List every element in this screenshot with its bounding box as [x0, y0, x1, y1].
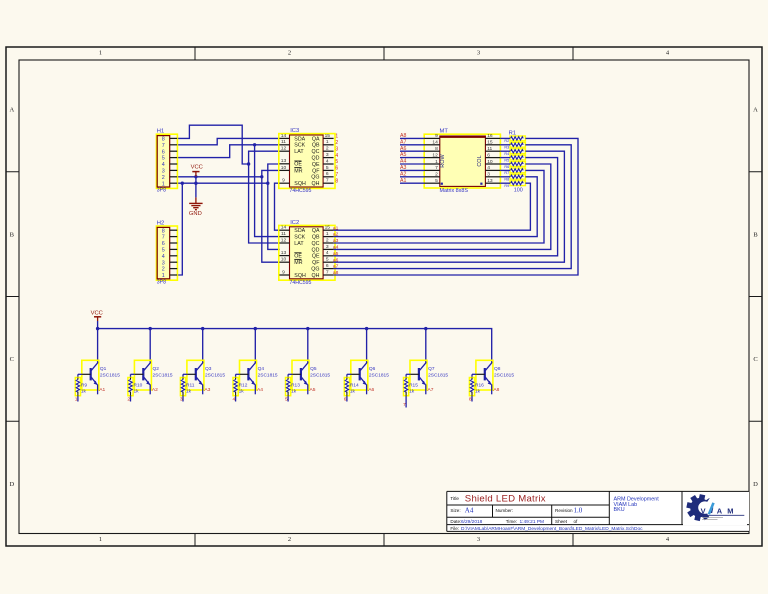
svg-text:3: 3	[487, 172, 490, 178]
svg-text:Q8: Q8	[494, 366, 501, 372]
svg-text:QD: QD	[312, 247, 320, 253]
wire H1 pin7 to IC3 SDA	[177, 138, 279, 144]
svg-text:QA: QA	[312, 136, 320, 142]
svg-text:2: 2	[162, 175, 165, 181]
svg-text:R6: R6	[504, 165, 509, 169]
svg-text:1k: 1k	[475, 389, 481, 395]
svg-text:3: 3	[162, 169, 165, 175]
svg-text:3: 3	[326, 152, 329, 158]
svg-text:VCC: VCC	[191, 165, 203, 171]
resistor R12 1k	[233, 378, 248, 396]
svg-text:A6: A6	[400, 146, 406, 152]
svg-text:3: 3	[180, 396, 183, 402]
svg-text:1: 1	[99, 536, 102, 543]
svg-text:6: 6	[487, 152, 490, 158]
svg-text:LAT: LAT	[294, 241, 304, 247]
svg-text:13: 13	[487, 178, 493, 184]
wire VCC stem to rows	[195, 177, 197, 183]
wire IC2 QC to resistor R7	[334, 170, 544, 243]
svg-text:IC2: IC2	[290, 220, 299, 226]
wire IC2 QB to resistor R8	[334, 177, 538, 237]
svg-text:QD: QD	[312, 156, 320, 162]
svg-text:2SC1815: 2SC1815	[310, 372, 330, 378]
wire H1 pin5 to IC3 SCK	[177, 145, 279, 158]
svg-text:QB: QB	[312, 235, 320, 241]
wire IC2 QG to resistor R3	[334, 145, 572, 269]
svg-text:1: 1	[99, 50, 102, 57]
svg-text:Q3: Q3	[205, 366, 212, 372]
wire net 4 stub below R12	[235, 396, 237, 402]
wire collector drop Q2	[149, 329, 151, 362]
svg-text:Time:: Time:	[506, 519, 517, 524]
svg-text:QC: QC	[312, 241, 320, 247]
ground GND	[189, 197, 203, 217]
svg-text:D:\VIAMLab\ARMHoanF\ARM_Develo: D:\VIAMLab\ARMHoanF\ARM_Development_Boar…	[461, 526, 643, 532]
wire IC2 QF to resistor R4	[334, 151, 565, 262]
shift register IC3 74HC595	[279, 128, 335, 194]
svg-text:1k: 1k	[186, 389, 192, 395]
svg-text:9: 9	[435, 133, 438, 139]
svg-text:Title: Title	[450, 496, 459, 501]
svg-text:A4: A4	[465, 506, 474, 514]
svg-text:5: 5	[162, 156, 165, 162]
svg-text:2: 2	[435, 172, 438, 178]
wire net 7 stub below R15	[405, 396, 407, 408]
transistor Q7 2SC1815	[410, 360, 448, 394]
svg-text:15: 15	[325, 133, 331, 139]
transistor Q8 2SC1815	[476, 360, 514, 394]
svg-text:2SC1815: 2SC1815	[428, 372, 448, 378]
svg-text:3P8: 3P8	[157, 188, 166, 194]
wire IC2 QD to resistor R6	[334, 164, 551, 249]
wire collector drop Q1	[97, 329, 99, 362]
wire H1 pin8 to LAT net	[177, 125, 249, 164]
svg-text:A1: A1	[400, 178, 406, 184]
wire collector drop Q4	[254, 329, 256, 362]
resistor R5	[504, 155, 525, 162]
transistor Q5 2SC1815	[292, 360, 330, 394]
svg-text:R15: R15	[409, 382, 418, 388]
wire IC2 QE to resistor R5	[334, 158, 558, 256]
svg-text:OE: OE	[294, 162, 302, 168]
svg-text:A8: A8	[493, 387, 499, 393]
wire base of Q1 to resistor R9	[78, 374, 91, 377]
svg-text:QA: QA	[312, 228, 320, 234]
resistor R8	[504, 174, 525, 181]
svg-text:QF: QF	[312, 260, 320, 266]
wire GND net H1 pin1 row	[177, 182, 268, 184]
svg-text:A4: A4	[257, 387, 263, 393]
svg-text:16: 16	[487, 133, 493, 139]
junction rail Q6	[365, 327, 368, 330]
svg-text:6: 6	[326, 263, 329, 269]
power VCC (transistor rail)	[91, 311, 103, 321]
wire collector drop Q3	[202, 329, 204, 362]
connector H1	[156, 129, 177, 194]
resistor R13 1k	[286, 378, 301, 396]
svg-text:Q6: Q6	[369, 366, 376, 372]
svg-text:3P8: 3P8	[157, 279, 166, 285]
svg-text:Number:: Number:	[496, 508, 514, 513]
svg-text:1k: 1k	[239, 389, 245, 395]
svg-text:7: 7	[162, 143, 165, 149]
svg-text:15: 15	[487, 140, 493, 146]
svg-text:2: 2	[288, 536, 291, 543]
wire base of Q2 to resistor R10	[131, 374, 144, 377]
svg-text:6: 6	[162, 149, 165, 155]
svg-text:15: 15	[325, 225, 331, 231]
wire base of Q7 to resistor R15	[406, 374, 419, 377]
wire GND net to OE pins	[268, 164, 280, 249]
svg-text:14: 14	[281, 225, 287, 231]
svg-text:A5: A5	[400, 152, 406, 158]
resistor R9 1k	[75, 378, 87, 396]
junction VCC stem on pin2 row	[194, 175, 197, 178]
svg-text:8: 8	[469, 396, 472, 402]
transistor Q2 2SC1815	[134, 360, 172, 394]
svg-text:2: 2	[288, 50, 291, 57]
svg-text:3: 3	[477, 50, 480, 57]
wire H2 pin1 to GND row	[177, 183, 182, 275]
resistor R4	[504, 149, 525, 156]
svg-text:11: 11	[281, 139, 286, 145]
svg-text:Matrix 8x8S: Matrix 8x8S	[440, 188, 469, 194]
junction GND row at OE vertical	[266, 182, 269, 185]
logo VIAM	[683, 492, 747, 525]
svg-text:R9: R9	[81, 382, 87, 388]
wire collector drop Q6	[366, 329, 368, 362]
wire matrix column pin to resistor R6	[500, 163, 510, 165]
connector H2	[156, 220, 177, 285]
svg-text:1: 1	[435, 159, 438, 165]
svg-text:1.0: 1.0	[574, 506, 583, 514]
svg-text:4: 4	[162, 254, 165, 260]
wire net A3 to matrix row pin	[400, 169, 425, 171]
junction SCK branch	[253, 143, 256, 146]
svg-text:8: 8	[335, 178, 338, 184]
svg-text:4: 4	[335, 153, 338, 159]
svg-text:IC3: IC3	[290, 128, 299, 134]
svg-text:R7: R7	[504, 171, 509, 175]
svg-text:1: 1	[162, 181, 165, 187]
svg-text:4: 4	[233, 396, 236, 402]
svg-text:2SC1815: 2SC1815	[258, 372, 278, 378]
svg-text:A7: A7	[428, 387, 434, 393]
wire net A6 to matrix row pin	[400, 150, 425, 152]
svg-text:MR: MR	[294, 260, 302, 266]
svg-text:7: 7	[162, 235, 165, 241]
transistor Q4 2SC1815	[240, 360, 278, 394]
svg-text:D: D	[9, 481, 14, 488]
svg-text:74HC595: 74HC595	[290, 280, 312, 286]
svg-text:SQH: SQH	[294, 273, 306, 279]
svg-text:A5: A5	[310, 387, 316, 393]
svg-text:5: 5	[335, 159, 338, 165]
junction rail Q2	[149, 327, 152, 330]
wire net 6 stub below R14	[346, 396, 348, 402]
wire matrix column pin to resistor R4	[500, 150, 510, 152]
svg-text:2SC1815: 2SC1815	[369, 372, 389, 378]
svg-text:A3: A3	[400, 165, 406, 171]
svg-text:3: 3	[162, 260, 165, 266]
svg-text:H2: H2	[157, 220, 164, 226]
resistor R11 1k	[180, 378, 194, 396]
svg-text:5: 5	[435, 178, 438, 184]
svg-text:B: B	[753, 231, 758, 238]
svg-text:5: 5	[326, 257, 329, 263]
svg-text:A: A	[9, 107, 14, 114]
svg-text:1: 1	[162, 273, 165, 279]
svg-text:Revision: Revision	[555, 508, 573, 513]
wire net 8 stub below R16	[471, 396, 473, 402]
svg-text:R11: R11	[186, 382, 195, 388]
svg-text:5: 5	[162, 248, 165, 254]
wire VCC net to MR pins	[262, 170, 280, 262]
svg-text:1: 1	[75, 396, 78, 402]
junction on LAT net	[247, 162, 250, 165]
svg-text:ROW: ROW	[440, 153, 446, 167]
resistor R14 1k	[344, 378, 359, 396]
svg-text:SCK: SCK	[294, 143, 305, 149]
junction rail Q7	[424, 327, 427, 330]
wire base of Q4 to resistor R12	[236, 374, 249, 377]
svg-text:12: 12	[432, 152, 438, 158]
svg-text:2SC1815: 2SC1815	[205, 372, 225, 378]
svg-text:COL: COL	[477, 155, 483, 166]
wire base of Q8 to resistor R16	[472, 374, 485, 377]
shift register IC2 74HC595	[279, 220, 335, 286]
svg-text:14: 14	[432, 140, 438, 146]
svg-text:MT: MT	[440, 129, 449, 135]
svg-text:SCK: SCK	[294, 235, 305, 241]
resistor R15 1k	[404, 378, 419, 396]
svg-text:R10: R10	[134, 382, 143, 388]
svg-text:4: 4	[487, 165, 490, 171]
svg-text:3: 3	[335, 146, 338, 152]
svg-text:A8: A8	[400, 133, 406, 139]
svg-text:7: 7	[335, 172, 338, 178]
resistor R6	[504, 162, 525, 169]
svg-text:QH: QH	[312, 273, 320, 279]
svg-text:8: 8	[162, 228, 165, 234]
svg-text:1: 1	[335, 134, 338, 140]
wire base of Q5 to resistor R13	[288, 374, 301, 377]
wire matrix column pin to resistor R2	[500, 137, 510, 139]
svg-text:QE: QE	[312, 254, 320, 260]
wire net A2 to matrix row pin	[400, 176, 425, 178]
wire base of Q6 to resistor R14	[347, 374, 360, 377]
svg-text:C: C	[753, 356, 757, 363]
svg-text:SDA: SDA	[294, 136, 305, 142]
wire base of Q3 to resistor R11	[183, 374, 196, 377]
svg-text:V: V	[701, 507, 706, 516]
svg-text:Shield LED Matrix: Shield LED Matrix	[465, 494, 546, 505]
svg-text:R9: R9	[504, 184, 509, 188]
wire net 1 stub below R9	[77, 396, 79, 402]
svg-text:A6: A6	[368, 387, 374, 393]
svg-text:5: 5	[326, 165, 329, 171]
wire collector drop Q7	[425, 329, 427, 362]
svg-text:A2: A2	[152, 387, 158, 393]
svg-text:4: 4	[162, 162, 165, 168]
svg-text:1k: 1k	[81, 389, 87, 395]
svg-text:2SC1815: 2SC1815	[494, 372, 514, 378]
wire collector drop Q5	[307, 329, 309, 362]
junction GND drop on pin1 row	[194, 182, 197, 185]
wire VCC rail	[97, 321, 99, 329]
svg-text:1:49:21 PM: 1:49:21 PM	[520, 519, 545, 525]
svg-text:GND: GND	[189, 211, 202, 217]
svg-text:QE: QE	[312, 162, 320, 168]
wire matrix column pin to resistor R7	[500, 169, 510, 171]
power VCC (top)	[191, 165, 203, 177]
svg-text:7: 7	[326, 178, 329, 184]
junction rail Q1	[96, 327, 99, 330]
wire net A1 to matrix row pin	[400, 182, 425, 184]
svg-text:R3: R3	[504, 146, 509, 150]
svg-text:MR: MR	[294, 168, 302, 174]
svg-text:QG: QG	[311, 267, 319, 273]
wire matrix column pin to resistor R9	[500, 182, 510, 184]
svg-text:Size:: Size:	[450, 508, 460, 513]
wire matrix column pin to resistor R3	[500, 144, 510, 146]
svg-text:A: A	[717, 507, 723, 516]
svg-text:3: 3	[477, 536, 480, 543]
svg-text:10: 10	[487, 159, 493, 165]
wire SCK net to IC2	[255, 145, 280, 237]
svg-text:6/29/2018: 6/29/2018	[461, 519, 483, 525]
wire LAT net IC3 to IC2	[249, 151, 280, 243]
resistor R2	[504, 136, 525, 143]
svg-text:1: 1	[326, 231, 329, 237]
svg-text:C: C	[10, 356, 14, 363]
wire net 3 stub below R11	[182, 396, 184, 402]
svg-text:Q4: Q4	[258, 366, 265, 372]
svg-text:1k: 1k	[350, 389, 356, 395]
svg-text:2SC1815: 2SC1815	[153, 372, 173, 378]
svg-text:R5: R5	[504, 158, 509, 162]
svg-text:R13: R13	[291, 382, 300, 388]
svg-text:LAT: LAT	[294, 149, 304, 155]
svg-text:2SC1815: 2SC1815	[100, 372, 120, 378]
svg-text:9: 9	[282, 269, 285, 275]
svg-text:1k: 1k	[291, 389, 297, 395]
svg-text:Q2: Q2	[153, 366, 160, 372]
svg-text:R4: R4	[504, 152, 509, 156]
svg-text:3: 3	[326, 244, 329, 250]
svg-text:QH: QH	[312, 181, 320, 187]
wire net 5 stub below R13	[287, 396, 289, 402]
svg-text:1k: 1k	[409, 389, 415, 395]
svg-text:OE: OE	[294, 254, 302, 260]
svg-text:QF: QF	[312, 168, 320, 174]
svg-text:BKU: BKU	[614, 507, 625, 513]
resistor R10 1k	[128, 378, 143, 396]
wire matrix column pin to resistor R5	[500, 157, 510, 159]
svg-text:6: 6	[335, 166, 338, 172]
svg-text:2: 2	[127, 396, 130, 402]
svg-text:8: 8	[162, 137, 165, 143]
junction rail Q5	[306, 327, 309, 330]
svg-text:QB: QB	[312, 143, 320, 149]
svg-text:11: 11	[487, 146, 492, 152]
wire net 2 stub below R10	[130, 396, 132, 402]
svg-text:R2: R2	[504, 139, 509, 143]
svg-text:SDA: SDA	[294, 228, 305, 234]
svg-text:13: 13	[281, 158, 287, 164]
svg-text:VCC: VCC	[91, 311, 103, 317]
svg-text:74HC595: 74HC595	[290, 188, 312, 194]
svg-text:2: 2	[326, 237, 329, 243]
svg-text:11: 11	[281, 231, 286, 237]
svg-text:5: 5	[285, 396, 288, 402]
svg-text:6: 6	[162, 241, 165, 247]
wire net A4 to matrix row pin	[400, 163, 425, 165]
wire IC2 QH to resistor R2	[334, 138, 578, 275]
resistor R3	[504, 142, 525, 149]
svg-text:A4: A4	[400, 159, 406, 165]
svg-text:QG: QG	[311, 175, 319, 181]
svg-text:Q7: Q7	[428, 366, 435, 372]
wire net A7 to matrix row pin	[400, 144, 425, 146]
transistor Q1 2SC1815	[82, 360, 120, 394]
svg-text:2: 2	[162, 267, 165, 273]
svg-text:M: M	[727, 507, 733, 516]
transistor Q6 2SC1815	[351, 360, 389, 394]
svg-text:12: 12	[281, 237, 287, 243]
svg-text:A1: A1	[99, 387, 105, 393]
svg-text:D: D	[753, 481, 758, 488]
svg-text:10: 10	[281, 257, 287, 263]
svg-text:Q1: Q1	[100, 366, 107, 372]
svg-text:2: 2	[326, 146, 329, 152]
svg-text:SQH: SQH	[294, 181, 306, 187]
resistor R16 1k	[469, 378, 484, 396]
svg-text:A3: A3	[204, 387, 210, 393]
wire matrix column pin to resistor R8	[500, 176, 510, 178]
svg-text:1: 1	[326, 139, 329, 145]
svg-text:R14: R14	[350, 382, 359, 388]
svg-text:R16: R16	[475, 382, 484, 388]
svg-text:13: 13	[281, 250, 287, 256]
wire IC3 SQH to IC2 SDA	[275, 183, 280, 230]
wire VCC net H1 pin2 row	[177, 176, 262, 178]
wire GND drop	[195, 183, 197, 197]
svg-text:7: 7	[326, 269, 329, 275]
svg-text:14: 14	[281, 133, 287, 139]
svg-text:R12: R12	[239, 382, 248, 388]
wire net A8 to matrix row pin	[400, 137, 425, 139]
svg-text:2: 2	[335, 140, 338, 146]
svg-text:4: 4	[326, 158, 329, 164]
transistor Q3 2SC1815	[187, 360, 225, 394]
junction rail Q3	[201, 327, 204, 330]
svg-text:8: 8	[435, 146, 438, 152]
svg-text:A: A	[753, 107, 758, 114]
svg-text:7: 7	[435, 165, 438, 171]
wire IC2 QA to resistor R9	[334, 183, 531, 230]
svg-text:R8: R8	[504, 178, 509, 182]
LED matrix MT Matrix 8x8S	[424, 129, 500, 195]
resistor R7	[504, 168, 525, 175]
wire net A5 to matrix row pin	[400, 157, 425, 159]
svg-text:1k: 1k	[134, 389, 140, 395]
svg-text:B: B	[10, 231, 15, 238]
svg-text:A2: A2	[400, 171, 406, 177]
svg-text:12: 12	[281, 146, 287, 152]
svg-text:6: 6	[344, 396, 347, 402]
svg-text:Date:: Date:	[450, 519, 461, 524]
